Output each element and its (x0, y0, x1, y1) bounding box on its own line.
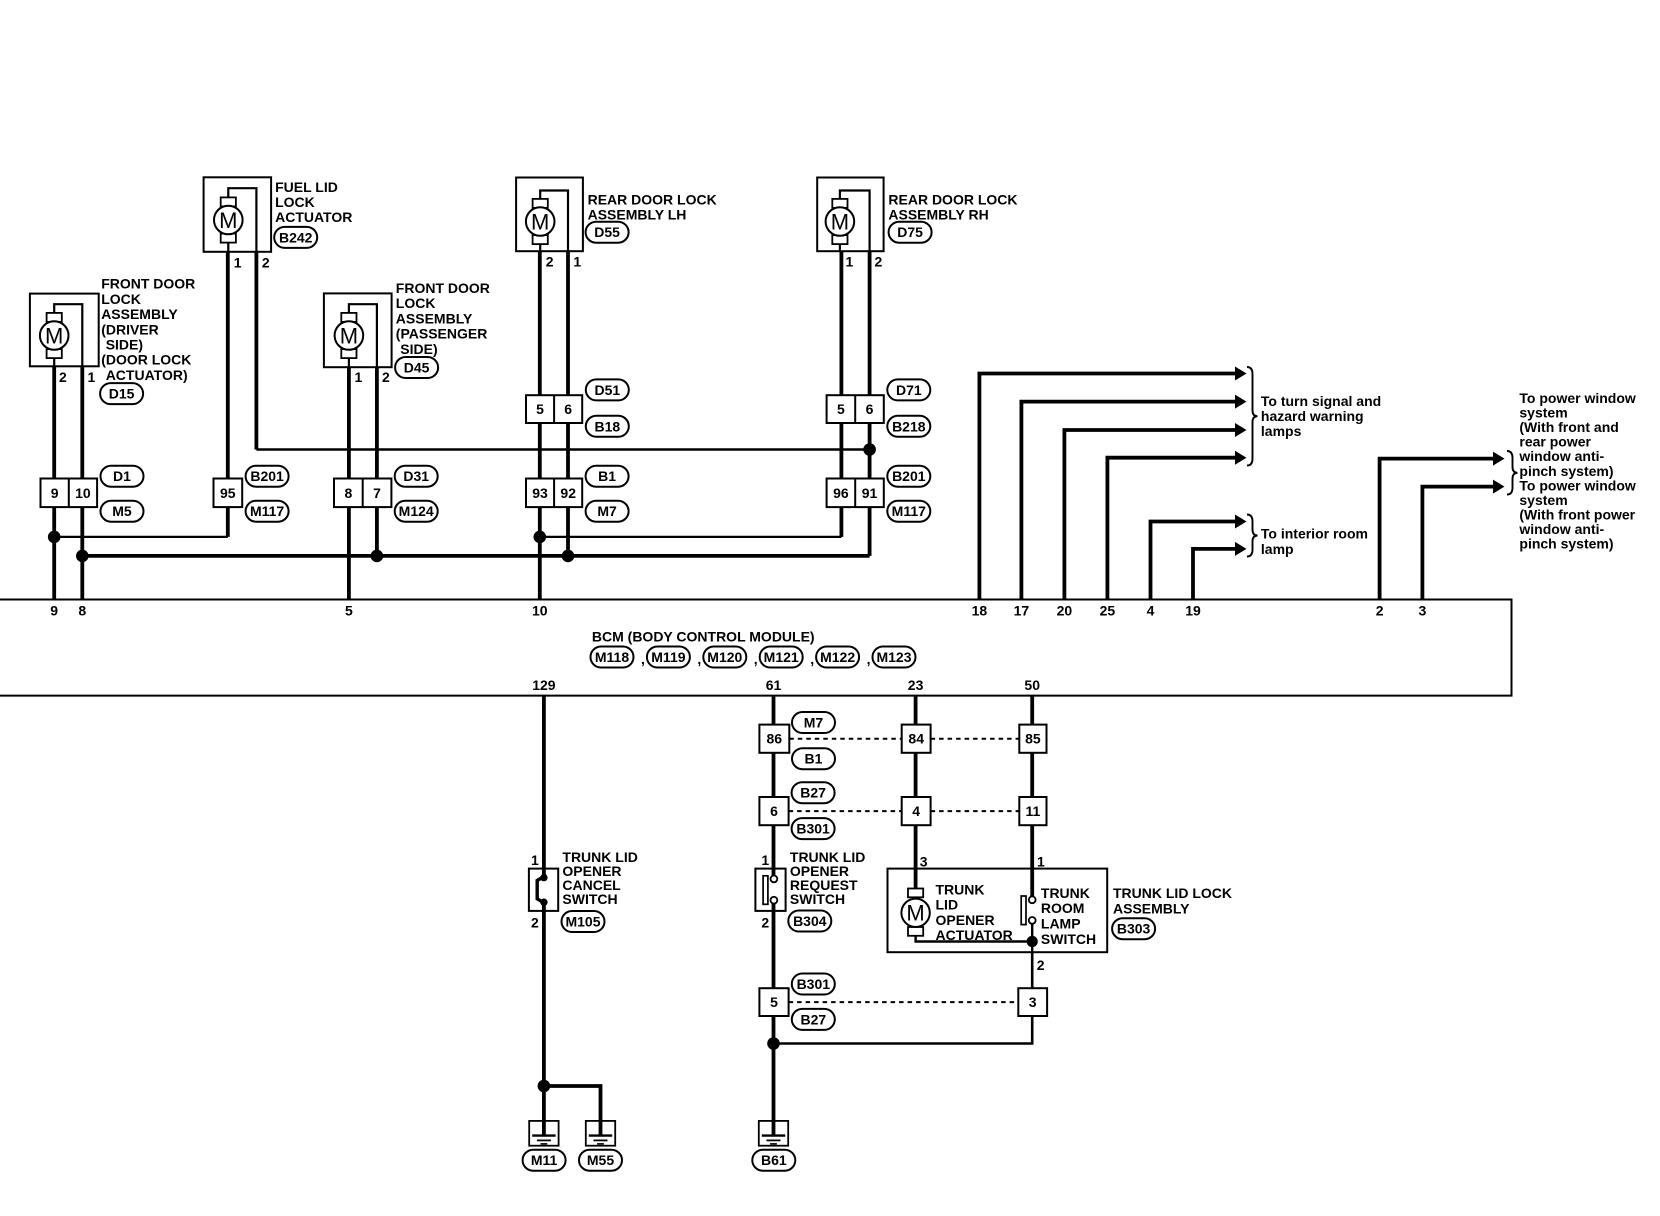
connector label D45 (395, 357, 438, 378)
svg-text:11: 11 (1025, 803, 1040, 819)
svg-text:B301: B301 (796, 821, 830, 837)
trunk lid opener request switch B304 box (755, 869, 785, 911)
svg-text:B201: B201 (892, 468, 926, 484)
connector label M7 (586, 501, 629, 522)
svg-text:5: 5 (837, 401, 845, 417)
svg-text:B27: B27 (800, 785, 826, 801)
svg-text:D71: D71 (896, 382, 922, 398)
svg-text:2: 2 (761, 914, 769, 930)
connector label D55 (586, 222, 629, 243)
connector B201/M117 96-91 (827, 479, 884, 508)
connector 3 (1018, 988, 1047, 1016)
svg-text:D31: D31 (403, 468, 429, 484)
svg-text:86: 86 (767, 731, 783, 747)
svg-text:18: 18 (972, 603, 988, 619)
wire BCM 129 to cancel switch (542, 696, 546, 869)
svg-text:M: M (531, 209, 549, 234)
svg-text:M: M (906, 901, 924, 926)
svg-text:2: 2 (531, 914, 539, 930)
connector label M118 (591, 647, 634, 668)
trunk lid opener cancel switch M105 box (529, 869, 558, 911)
connector D51/B18 (526, 395, 582, 423)
connector B1/M7 93-92 (526, 479, 582, 508)
wire BCM pin 17 to turn signal (1021, 402, 1235, 600)
junction node bus-7 (371, 550, 384, 563)
svg-text:50: 50 (1024, 677, 1040, 693)
wire trunk pin2 to cell 3 (1031, 942, 1034, 989)
svg-text:19: 19 (1185, 603, 1201, 619)
svg-text:M55: M55 (587, 1152, 614, 1168)
svg-text:95: 95 (220, 485, 236, 501)
connector label M5 (101, 501, 144, 522)
connector B301/B27 5 (759, 988, 788, 1016)
wire BCM pin 4 to interior lamp (1151, 522, 1236, 600)
svg-text:2: 2 (875, 254, 883, 270)
arrowhead to power window (pin 3) (1493, 480, 1505, 494)
wire 50 seg2 (1030, 753, 1034, 797)
svg-text:D75: D75 (897, 224, 923, 240)
svg-text:B301: B301 (797, 976, 831, 992)
connector B201/M117 95 (214, 479, 243, 508)
connector M7/B1 86 (759, 725, 789, 753)
wire BCM pin 3 to power window (1422, 487, 1493, 600)
svg-text:5: 5 (536, 401, 544, 417)
svg-text:M123: M123 (876, 649, 911, 665)
junction node fuel2-91 (863, 443, 876, 456)
svg-text:92: 92 (560, 485, 576, 501)
svg-text:B218: B218 (892, 418, 926, 434)
svg-text:B242: B242 (279, 229, 313, 245)
brace interior lamp group (1247, 515, 1258, 557)
svg-text:3: 3 (1029, 994, 1037, 1010)
connector label M122 (816, 647, 859, 668)
motor rear door lock RH (826, 191, 870, 252)
connector label B242 (274, 227, 317, 248)
connector label B18 (586, 416, 629, 437)
wire 61 seg3 (772, 825, 776, 868)
rear door lock assembly RH box D75 (817, 178, 883, 252)
wire 61 seg5 to ground B61 (772, 1016, 776, 1135)
rear door lock assembly LH box D55 (516, 178, 583, 252)
svg-text:1: 1 (88, 369, 96, 385)
svg-text:M117: M117 (250, 503, 284, 519)
motor rear door lock LH (526, 191, 568, 252)
svg-text:1: 1 (761, 852, 769, 868)
ground M11 (529, 1121, 558, 1146)
wire 96 to node B (540, 536, 842, 538)
svg-text:D1: D1 (113, 468, 131, 484)
svg-text:B27: B27 (800, 1011, 826, 1027)
front door lock assembly driver side box D15 (30, 294, 99, 367)
svg-text:B303: B303 (1117, 921, 1151, 937)
svg-text:10: 10 (532, 603, 548, 619)
junction node trunk ground (767, 1037, 780, 1050)
connector label M117 (887, 501, 930, 522)
svg-text:1: 1 (531, 852, 539, 868)
svg-text:3: 3 (1419, 603, 1427, 619)
wire D15 pin2 to BCM pin 9 (52, 366, 56, 600)
svg-text:20: 20 (1057, 603, 1073, 619)
motor front door lock driver (40, 304, 82, 366)
junction node bus-10 (76, 550, 89, 563)
svg-text:93: 93 (532, 485, 548, 501)
svg-text:2: 2 (262, 255, 270, 271)
svg-text:7: 7 (373, 485, 381, 501)
connector label B61 (752, 1150, 795, 1171)
svg-text:B18: B18 (594, 418, 620, 434)
ground B61 (759, 1121, 788, 1146)
svg-text:6: 6 (866, 401, 874, 417)
svg-text:,: , (810, 651, 814, 667)
connector B27/B301 6 (759, 797, 788, 825)
connector label B1 (586, 466, 629, 487)
motor fuel lid lock actuator (214, 188, 256, 252)
junction node B (534, 531, 547, 544)
junction node ground split (538, 1080, 551, 1093)
svg-text:85: 85 (1025, 731, 1041, 747)
svg-text:4: 4 (1147, 603, 1155, 619)
connector label B27 (792, 782, 835, 803)
svg-text:B1: B1 (805, 751, 823, 767)
connector label D1 (101, 466, 144, 487)
wire ground branch to M55 (544, 1086, 601, 1135)
wire BCM pin 20 to turn signal (1064, 430, 1235, 600)
wire 95 to node A (54, 536, 228, 538)
svg-text:M: M (219, 208, 237, 233)
wire fuel-lid pin2 down (254, 252, 258, 450)
svg-text:6: 6 (564, 401, 572, 417)
brace power window group (1507, 451, 1518, 495)
wire 23 seg3 (914, 825, 918, 889)
wire BCM pin 2 to power window (1380, 459, 1493, 600)
svg-text:10: 10 (75, 485, 91, 501)
connector label M121 (760, 647, 803, 668)
svg-text:2: 2 (382, 369, 390, 385)
junction node bus-92 (562, 550, 575, 563)
svg-text:D45: D45 (404, 360, 430, 376)
connector label M7 (792, 712, 835, 733)
svg-text:25: 25 (1100, 603, 1116, 619)
connector label M105 (562, 911, 605, 932)
wire cell3 to trunk ground node (774, 1016, 1033, 1044)
connector label M11 (523, 1150, 566, 1171)
connector label B303 (1112, 918, 1155, 939)
connector label B304 (788, 911, 831, 932)
svg-text:M7: M7 (804, 715, 824, 731)
connector label M117 (246, 501, 289, 522)
svg-text:D51: D51 (594, 382, 620, 398)
wire BCM pin 19 to interior lamp (1193, 549, 1235, 600)
connector D1/M5 9-10 (41, 479, 98, 508)
arrowhead to turn signal (pin 18) (1235, 367, 1247, 381)
svg-text:BCM (BODY CONTROL MODULE): BCM (BODY CONTROL MODULE) (592, 629, 815, 645)
svg-text:8: 8 (78, 603, 86, 619)
connector label D15 (100, 383, 143, 404)
dashed link 4-11 (931, 810, 1020, 812)
connector 11 (1019, 797, 1046, 825)
connector label M123 (873, 647, 916, 668)
svg-text:D55: D55 (594, 224, 620, 240)
svg-text:B201: B201 (250, 468, 284, 484)
svg-text:23: 23 (908, 677, 924, 693)
svg-text:5: 5 (770, 994, 778, 1010)
wire 50 seg3 (1030, 825, 1034, 876)
svg-text:17: 17 (1014, 603, 1030, 619)
wire D55 pin2 to BCM pin 10 (538, 251, 542, 600)
request switch contacts (763, 869, 777, 911)
connector label M120 (703, 647, 746, 668)
arrowhead to turn signal (pin 25) (1235, 451, 1247, 465)
connector 84 (902, 725, 931, 753)
wire D55 pin1 to bus (566, 251, 570, 556)
svg-text:M124: M124 (399, 503, 434, 519)
svg-text:91: 91 (862, 485, 878, 501)
svg-text:M: M (340, 323, 358, 348)
dashed link 5-3 (789, 1001, 1019, 1003)
connector label D71 (887, 379, 930, 400)
svg-text:2: 2 (546, 254, 554, 270)
svg-text:1: 1 (846, 254, 854, 270)
dashed link 6-4 (789, 810, 902, 812)
connector label D75 (889, 222, 932, 243)
wire D45 pin1 to BCM pin 5 (347, 367, 351, 600)
connector label D31 (395, 466, 438, 487)
svg-text:2: 2 (59, 369, 67, 385)
svg-text:,: , (867, 651, 871, 667)
svg-text:M121: M121 (764, 649, 799, 665)
svg-text:6: 6 (770, 803, 778, 819)
connector label B201 (887, 466, 930, 487)
connector label B301 (792, 818, 835, 839)
junction node A (48, 531, 61, 544)
wire fuel-lid pin2 across to D75 pin2 (256, 448, 869, 451)
svg-text:1: 1 (234, 255, 242, 271)
svg-text:1: 1 (355, 369, 363, 385)
wire 61 seg4 (772, 911, 776, 988)
connector label B301 (792, 974, 835, 995)
svg-text:8: 8 (345, 485, 353, 501)
wire common bus (82, 554, 869, 558)
connector label B1 (792, 748, 835, 769)
connector D31/M124 8-7 (334, 479, 391, 508)
trunk lid lock assembly B303 box (888, 869, 1108, 953)
svg-text:2: 2 (1037, 957, 1045, 973)
wire 61 seg2 (772, 753, 776, 797)
svg-text:D15: D15 (109, 386, 135, 402)
arrowhead to turn signal (pin 17) (1235, 395, 1247, 409)
svg-text:M5: M5 (112, 503, 132, 519)
svg-text:M119: M119 (651, 649, 685, 665)
front door lock assembly passenger side box D45 (324, 293, 392, 367)
wire fuel-lid pin1 down (226, 252, 230, 537)
arrowhead to interior room lamp (pin 19) (1235, 542, 1247, 556)
wire BCM pin 18 to turn signal (979, 374, 1235, 600)
svg-text:B304: B304 (793, 913, 827, 929)
trunk room lamp switch (1021, 869, 1038, 953)
svg-text:M120: M120 (707, 649, 742, 665)
arrowhead to power window (pin 2) (1493, 452, 1505, 466)
svg-text:5: 5 (345, 603, 353, 619)
connector 85 (1019, 725, 1046, 753)
svg-text:9: 9 (51, 485, 59, 501)
wire D15 pin1 to bus (80, 366, 84, 600)
wire cancel switch to ground node (542, 911, 546, 1135)
wire D45 pin2 to bus (375, 367, 379, 556)
wire BCM pin 25 to turn signal (1107, 458, 1235, 600)
wire BCM 61 seg1 (772, 696, 776, 725)
brace turn signal group (1247, 367, 1258, 466)
svg-text:1: 1 (1037, 854, 1045, 870)
cancel switch contacts (537, 869, 547, 911)
svg-text:B1: B1 (598, 468, 616, 484)
dashed link 86-84 (789, 738, 901, 740)
connector label B218 (887, 416, 930, 437)
wire 23 seg2 (914, 753, 918, 797)
trunk lid opener actuator motor (901, 869, 1032, 942)
svg-text:4: 4 (912, 803, 920, 819)
connector label M124 (395, 501, 438, 522)
svg-text:,: , (697, 651, 701, 667)
svg-text:96: 96 (833, 485, 849, 501)
svg-text:M: M (45, 323, 63, 348)
svg-text:M7: M7 (597, 503, 617, 519)
svg-text:9: 9 (50, 603, 58, 619)
svg-text:M11: M11 (531, 1152, 558, 1168)
svg-text:M117: M117 (892, 503, 926, 519)
svg-text:84: 84 (908, 731, 924, 747)
svg-text:,: , (754, 651, 758, 667)
arrowhead to interior room lamp (pin 4) (1235, 515, 1247, 529)
BCM (Body Control Module) box (0, 600, 1512, 696)
svg-text:,: , (641, 651, 645, 667)
connector label D51 (586, 379, 629, 400)
connector label B201 (246, 466, 289, 487)
svg-text:M122: M122 (820, 649, 855, 665)
wire D75 pin1 down (840, 251, 844, 537)
connector label M55 (579, 1150, 622, 1171)
wire BCM 23 seg1 (914, 696, 918, 725)
connector 4 (902, 797, 931, 825)
svg-text:M: M (831, 209, 849, 234)
motor front door lock passenger (335, 304, 377, 367)
svg-text:61: 61 (766, 677, 782, 693)
svg-text:2: 2 (1376, 603, 1384, 619)
fuel lid lock actuator box B242 (204, 177, 272, 252)
svg-text:3: 3 (920, 854, 928, 870)
svg-text:1: 1 (573, 254, 581, 270)
svg-text:129: 129 (532, 677, 556, 693)
connector D71/B218 (827, 395, 884, 423)
svg-text:M105: M105 (565, 914, 600, 930)
svg-text:M118: M118 (595, 649, 629, 665)
dashed link 84-85 (931, 738, 1020, 740)
connector label B27 (792, 1009, 835, 1030)
connector label M119 (647, 647, 690, 668)
ground M55 (586, 1121, 615, 1146)
wire D75 pin2 down (868, 251, 872, 556)
svg-text:B61: B61 (761, 1152, 787, 1168)
wire BCM 50 seg1 (1030, 696, 1034, 725)
arrowhead to turn signal (pin 20) (1235, 423, 1247, 437)
